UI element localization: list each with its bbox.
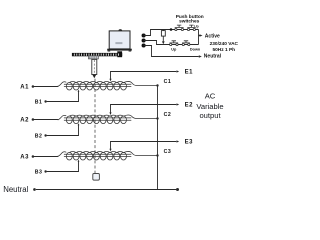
node neutral end <box>176 188 179 191</box>
svg-text:Up: Up <box>194 24 199 28</box>
terminal E1 arrow <box>177 70 180 72</box>
wire motor terminal 3 to neutral <box>144 46 199 57</box>
terminal E2 arrow <box>177 103 180 105</box>
winding coil 3 (A3 left end) <box>58 151 158 160</box>
limit switch (top row, right) 'Up' <box>187 28 195 30</box>
svg-text:C1: C1 <box>164 79 172 85</box>
wire motor terminal 2 to lower branch <box>144 41 199 45</box>
svg-text:C2: C2 <box>164 112 172 118</box>
wire A1 to coil 1 <box>34 85 59 87</box>
svg-text:A3: A3 <box>20 155 29 161</box>
motor base plate <box>107 49 132 51</box>
svg-text:Variable: Variable <box>196 102 223 111</box>
svg-text:E3: E3 <box>185 140 194 146</box>
gear rack bar <box>72 53 122 56</box>
svg-text:E2: E2 <box>185 103 194 109</box>
wire B3 tap <box>47 161 79 171</box>
wire E1 tap <box>111 72 177 81</box>
node C2 <box>156 117 158 119</box>
brush carriage <box>88 56 98 59</box>
svg-text:Neutral: Neutral <box>204 54 222 60</box>
node on top branch <box>170 28 173 31</box>
svg-text:230/240 VAC: 230/240 VAC <box>210 41 239 47</box>
svg-text:A1: A1 <box>20 85 29 91</box>
svg-text:B3: B3 <box>35 170 43 176</box>
wire B1 tap <box>47 91 79 101</box>
motor M1 <box>118 29 122 31</box>
motor terminal dots <box>142 33 146 37</box>
svg-text:output: output <box>199 111 221 120</box>
terminal E3 arrow <box>177 140 180 142</box>
node C3 <box>156 154 158 156</box>
svg-text:Neutral: Neutral <box>3 185 28 194</box>
push button switch Down <box>182 43 190 45</box>
wire E2 tap <box>111 105 177 114</box>
winding coil 2 (A2 left end) <box>58 115 158 124</box>
capacitor (motor phase) <box>162 30 164 31</box>
svg-text:switches: switches <box>179 19 200 25</box>
neutral terminal (right) <box>199 55 202 58</box>
wire motor terminal 1 to top branch <box>144 30 199 36</box>
svg-text:AC: AC <box>205 92 216 101</box>
wire B2 tap <box>47 125 79 136</box>
limit switch (top row, left) <box>175 28 184 30</box>
svg-text:50Hz 1 Ph: 50Hz 1 Ph <box>212 47 235 53</box>
wire A2 to coil 2 <box>34 119 59 121</box>
svg-text:Down: Down <box>190 47 201 51</box>
active terminal <box>199 35 200 37</box>
push button switch Up <box>170 43 179 45</box>
brush shaft <box>92 59 97 74</box>
neutral wire <box>36 189 176 191</box>
brush travel dashed line <box>94 79 96 173</box>
node C1 <box>156 84 158 86</box>
svg-text:Up: Up <box>171 48 177 52</box>
wire E3 tap <box>111 142 177 151</box>
svg-text:C3: C3 <box>164 149 172 155</box>
svg-text:A2: A2 <box>20 118 29 124</box>
svg-text:B1: B1 <box>35 100 43 106</box>
bus wire C1-C2-C3 to neutral <box>157 86 159 190</box>
wire A3 to coil 3 <box>34 155 59 157</box>
winding coil 1 (A1 left end) <box>58 81 158 90</box>
motor pinion block <box>117 51 122 57</box>
svg-text:Active: Active <box>205 34 220 40</box>
svg-text:E1: E1 <box>185 70 194 76</box>
brush block <box>93 174 100 181</box>
right vertical wire (active) <box>198 30 200 45</box>
svg-text:B2: B2 <box>35 134 43 140</box>
